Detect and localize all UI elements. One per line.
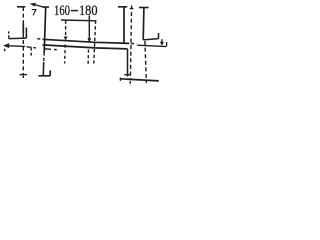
upper rail dashed continuation [131,43,137,45]
dashed extension drop left [65,21,67,37]
upper rail hidden dash [37,38,40,40]
right stem A [123,7,125,43]
extension drop mid-right solid with arrow [88,16,90,43]
svg-text:180: 180 [79,3,98,19]
left stem below-base dashes [22,76,24,79]
dashed continuation below [87,50,89,64]
right dashed below base [129,81,131,85]
right base line [120,79,159,81]
right down arrow drop [161,39,163,42]
arrowhead down onto upper rail [64,37,68,41]
left stem solid run [22,23,24,34]
label 7 [32,10,36,16]
left solid stem 2 [44,7,46,53]
dashed drop far right of dim [94,21,96,64]
base left tick [119,78,121,81]
svg-text:160: 160 [54,3,70,19]
left dashed stem [22,7,24,74]
dashed continuation below rails [64,45,67,64]
right T-cap B [139,7,149,9]
big left arrow [3,43,9,48]
upper rail corner up [25,28,27,39]
dimension line under text [61,19,97,22]
upper rail left arm [9,37,27,40]
arrowhead down onto lower rail [87,38,91,42]
right stem B [142,8,145,40]
right arm end tick [166,42,168,46]
lower rail corner descending [127,49,129,77]
right arm bottom line [137,45,166,46]
dash under arrow tip [4,49,6,52]
right T-cap A [118,6,127,8]
short dashed vertical left of cross [30,48,32,57]
upper rail main [43,39,130,43]
hidden lower line dashes [27,47,57,50]
left T-cap 2 [43,6,50,8]
dash under descend end [124,74,130,76]
right arm top line + up tick [143,33,158,40]
left stem cross dash [20,74,27,76]
left arm lower line [9,45,25,48]
lower rail main [43,45,128,49]
left foot + tick [39,70,51,75]
right dashed line [130,6,131,81]
tick on dashed line top [130,8,134,10]
callout leader arrow [35,5,44,8]
right dashed vertical lower [145,41,147,83]
left T-cap 1 [17,6,25,8]
upper rail left end ticks [8,31,10,38]
